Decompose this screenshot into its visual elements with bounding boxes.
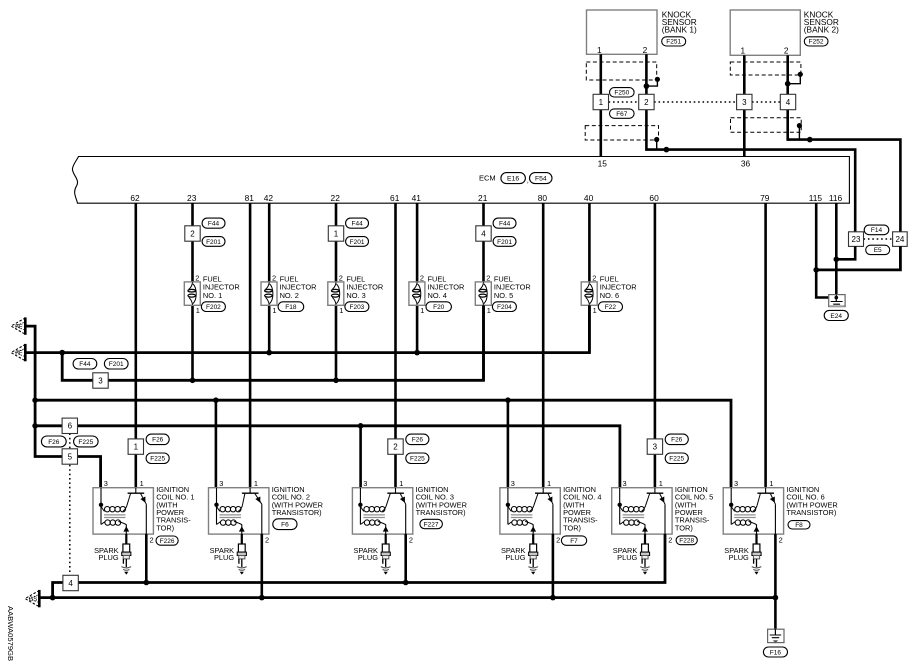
svg-text:F14: F14 [871, 227, 883, 234]
svg-text:FF: FF [15, 324, 23, 330]
svg-text:F54: F54 [535, 175, 547, 182]
svg-text:F18: F18 [285, 304, 297, 311]
svg-text:F26: F26 [412, 437, 424, 444]
svg-text:F226: F226 [160, 538, 175, 545]
svg-text:F16: F16 [770, 649, 782, 656]
svg-text:1: 1 [593, 306, 597, 315]
svg-text:F44: F44 [208, 221, 220, 228]
svg-text:1: 1 [399, 479, 403, 488]
svg-text:41: 41 [412, 193, 422, 203]
svg-text:,: , [527, 176, 529, 185]
svg-text:TOR): TOR) [675, 523, 693, 532]
svg-text:TRANSISTOR): TRANSISTOR) [272, 508, 322, 517]
svg-text:2: 2 [420, 273, 424, 282]
svg-text:3: 3 [104, 479, 108, 488]
svg-text:22: 22 [331, 193, 341, 203]
svg-text:F44: F44 [499, 221, 511, 228]
svg-text:NO. 4: NO. 4 [428, 291, 447, 300]
svg-text:TOR): TOR) [156, 523, 174, 532]
svg-text:1: 1 [487, 306, 491, 315]
svg-text:2: 2 [668, 535, 672, 544]
svg-text:2: 2 [779, 535, 783, 544]
svg-text:F225: F225 [410, 456, 425, 463]
svg-text:2: 2 [592, 273, 596, 282]
svg-text:42: 42 [264, 193, 274, 203]
svg-text:2: 2 [643, 45, 648, 55]
svg-text:2: 2 [272, 273, 276, 282]
svg-text:40: 40 [584, 193, 594, 203]
svg-text:PLUG: PLUG [214, 553, 234, 562]
svg-text:F252: F252 [809, 39, 824, 46]
svg-text:1: 1 [420, 306, 424, 315]
svg-text:F250: F250 [614, 90, 629, 97]
svg-text:F67: F67 [616, 111, 628, 118]
svg-text:2: 2 [339, 273, 343, 282]
svg-text:F44: F44 [79, 361, 91, 368]
svg-text:1: 1 [599, 98, 604, 107]
svg-text:23: 23 [187, 193, 197, 203]
svg-text:NO. 2: NO. 2 [280, 291, 299, 300]
svg-text:F6: F6 [281, 522, 289, 529]
svg-text:F201: F201 [350, 239, 365, 246]
svg-text:1: 1 [334, 229, 339, 238]
svg-text:F202: F202 [206, 304, 221, 311]
svg-text:5: 5 [68, 452, 73, 461]
svg-text:TRANSISTOR): TRANSISTOR) [786, 508, 836, 517]
svg-text:PLUG: PLUG [729, 553, 749, 562]
svg-text:F201: F201 [497, 239, 512, 246]
svg-text:81: 81 [245, 193, 255, 203]
svg-text:NO. 3: NO. 3 [346, 291, 365, 300]
svg-text:E16: E16 [507, 175, 519, 182]
svg-text:PLUG: PLUG [98, 553, 118, 562]
svg-text:F26: F26 [48, 439, 60, 446]
svg-text:F225: F225 [78, 439, 93, 446]
svg-text:3: 3 [623, 479, 627, 488]
svg-text:2: 2 [150, 535, 154, 544]
svg-text:6: 6 [68, 422, 73, 431]
svg-text:21: 21 [478, 193, 488, 203]
svg-text:F20: F20 [433, 304, 445, 311]
svg-text:62: 62 [130, 193, 140, 203]
svg-text:F22: F22 [605, 304, 617, 311]
svg-text:(BANK 1): (BANK 1) [662, 24, 697, 34]
svg-text:3: 3 [98, 376, 103, 385]
svg-text:1: 1 [769, 479, 773, 488]
svg-text:3: 3 [219, 479, 223, 488]
svg-text:F26: F26 [671, 437, 683, 444]
svg-text:2: 2 [556, 535, 560, 544]
svg-text:F227: F227 [424, 521, 439, 528]
svg-text:2: 2 [190, 229, 195, 238]
svg-text:2: 2 [265, 535, 269, 544]
svg-text:FF: FF [15, 351, 23, 357]
svg-text:2: 2 [644, 98, 649, 107]
svg-text:F225: F225 [669, 456, 684, 463]
svg-text:NO. 6: NO. 6 [600, 291, 619, 300]
svg-text:2: 2 [409, 535, 413, 544]
svg-text:1: 1 [140, 479, 144, 488]
svg-text:F201: F201 [109, 361, 124, 368]
svg-text:F8: F8 [795, 522, 803, 529]
svg-text:GS: GS [29, 597, 38, 603]
svg-text:1: 1 [339, 306, 343, 315]
svg-text:2: 2 [393, 443, 398, 452]
svg-text:PLUG: PLUG [505, 553, 525, 562]
svg-text:115: 115 [809, 193, 823, 203]
svg-text:F228: F228 [679, 538, 694, 545]
svg-text:3: 3 [511, 479, 515, 488]
svg-text:F225: F225 [150, 456, 165, 463]
svg-text:1: 1 [134, 443, 139, 452]
svg-text:4: 4 [481, 229, 486, 238]
svg-text:1: 1 [547, 479, 551, 488]
svg-text:F251: F251 [666, 39, 681, 46]
svg-text:2: 2 [486, 273, 490, 282]
svg-text:AABWA0579GB: AABWA0579GB [6, 606, 15, 661]
svg-text:E5: E5 [874, 247, 882, 254]
svg-text:79: 79 [760, 193, 770, 203]
svg-text:E24: E24 [830, 313, 842, 320]
svg-text:TOR): TOR) [563, 523, 581, 532]
svg-text:1: 1 [196, 306, 200, 315]
svg-text:1: 1 [740, 45, 745, 55]
svg-text:PLUG: PLUG [617, 553, 637, 562]
svg-text:4: 4 [786, 98, 791, 107]
svg-text:61: 61 [390, 193, 400, 203]
svg-text:4: 4 [68, 579, 73, 588]
svg-text:TRANSISTOR): TRANSISTOR) [416, 508, 466, 517]
svg-text:F44: F44 [351, 221, 363, 228]
svg-text:3: 3 [734, 479, 738, 488]
svg-text:116: 116 [829, 193, 843, 203]
svg-text:(BANK 2): (BANK 2) [804, 24, 839, 34]
svg-text:1: 1 [597, 45, 602, 55]
svg-text:23: 23 [852, 235, 861, 244]
svg-text:60: 60 [649, 193, 659, 203]
svg-text:F201: F201 [206, 239, 221, 246]
svg-text:NO. 5: NO. 5 [494, 291, 513, 300]
svg-text:2: 2 [195, 273, 199, 282]
svg-text:1: 1 [272, 306, 276, 315]
svg-text:3: 3 [363, 479, 367, 488]
svg-text:36: 36 [741, 159, 751, 169]
svg-text:F203: F203 [349, 304, 364, 311]
svg-text:ECM: ECM [479, 174, 496, 183]
svg-text:PLUG: PLUG [358, 553, 378, 562]
svg-text:NO. 1: NO. 1 [203, 291, 222, 300]
svg-text:F26: F26 [152, 437, 164, 444]
svg-text:2: 2 [784, 45, 789, 55]
svg-text:3: 3 [742, 98, 747, 107]
svg-text:F204: F204 [497, 304, 512, 311]
svg-text:F7: F7 [570, 538, 578, 545]
svg-text:1: 1 [254, 479, 258, 488]
svg-text:3: 3 [653, 443, 658, 452]
svg-text:1: 1 [659, 479, 663, 488]
svg-text:15: 15 [598, 159, 608, 169]
svg-text:80: 80 [538, 193, 548, 203]
svg-text:24: 24 [895, 235, 904, 244]
